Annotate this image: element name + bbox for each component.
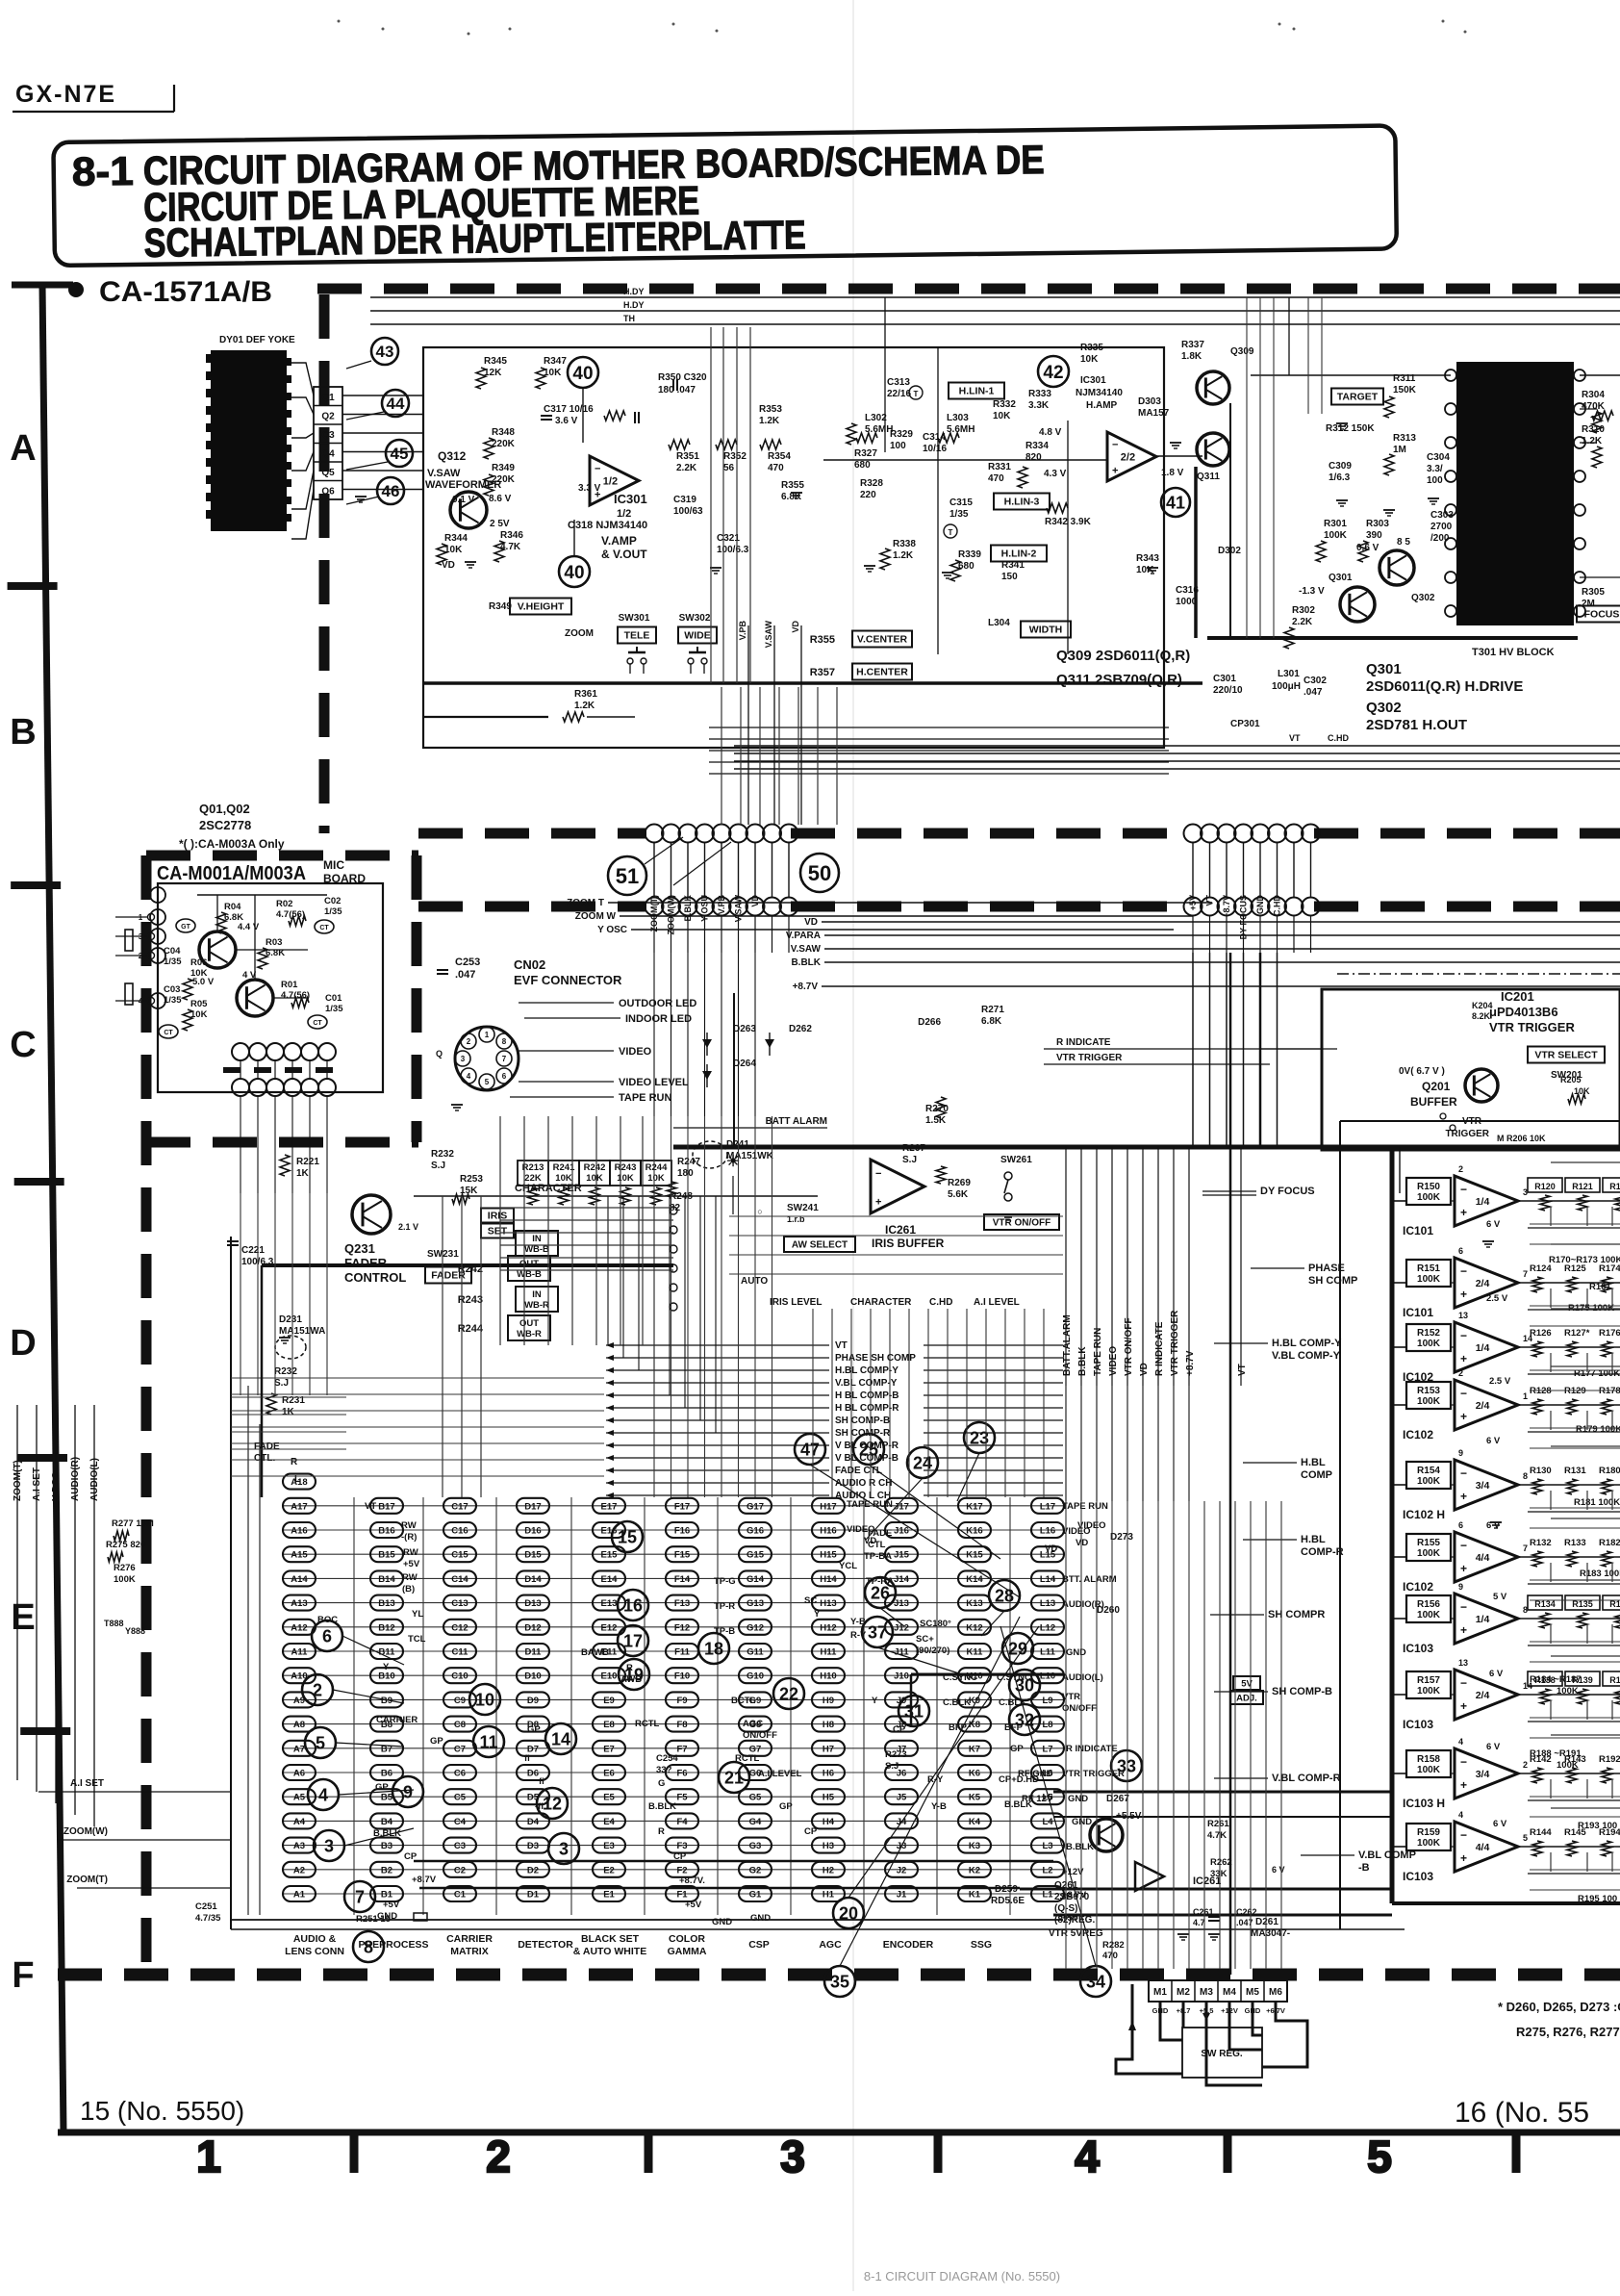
svg-text:6: 6 (502, 1072, 507, 1081)
svg-text:43: 43 (376, 343, 394, 361)
svg-text:2: 2 (1458, 1368, 1463, 1378)
svg-text:RD5.6E: RD5.6E (991, 1896, 1025, 1906)
svg-text:TAPE RUN: TAPE RUN (1062, 1501, 1108, 1512)
svg-text:9: 9 (1458, 1582, 1463, 1592)
svg-text:IC201: IC201 (1501, 989, 1534, 1004)
svg-text:470K: 470K (1582, 401, 1606, 412)
svg-text:& V.OUT: & V.OUT (601, 548, 647, 561)
svg-text:(82)REG.: (82)REG. (1054, 1915, 1095, 1926)
svg-text:2SD781 H.OUT: 2SD781 H.OUT (1366, 717, 1467, 733)
svg-text:ZOOM(T): ZOOM(T) (649, 895, 659, 932)
svg-text:+: + (1460, 1699, 1467, 1713)
svg-text:H.BL: H.BL (1301, 1457, 1326, 1468)
svg-text:Q01,Q02: Q01,Q02 (199, 802, 250, 816)
svg-text:Q201: Q201 (1422, 1080, 1451, 1093)
svg-text:GND: GND (1068, 1794, 1088, 1804)
svg-text:fi: fi (539, 1776, 544, 1787)
svg-text:R304: R304 (1582, 390, 1605, 400)
svg-text:K204: K204 (1472, 1001, 1493, 1010)
svg-text:−: − (1460, 1467, 1467, 1480)
svg-text:L16: L16 (1040, 1526, 1055, 1537)
svg-text:42: 42 (1043, 363, 1063, 383)
svg-text:470: 470 (1102, 1951, 1118, 1961)
svg-text:7: 7 (1523, 1269, 1528, 1279)
svg-text:R353: R353 (759, 404, 782, 415)
svg-text:R02: R02 (276, 899, 292, 909)
svg-text:4: 4 (318, 1785, 328, 1804)
svg-text:R193 100: R193 100 (1578, 1821, 1617, 1831)
svg-text:SW261: SW261 (1000, 1155, 1032, 1165)
svg-text:51: 51 (616, 864, 639, 888)
svg-text:C303: C303 (1430, 510, 1454, 521)
svg-text:R275, R276, R277 :CA-: R275, R276, R277 :CA- (1516, 2025, 1620, 2039)
svg-text:H8: H8 (823, 1720, 834, 1730)
svg-text:A3: A3 (293, 1841, 305, 1851)
svg-text:ON/OFF: ON/OFF (743, 1730, 777, 1741)
svg-text:2: 2 (1458, 1164, 1463, 1174)
svg-text:10K: 10K (617, 1173, 634, 1184)
svg-text:C309: C309 (1329, 461, 1352, 472)
svg-text:H9: H9 (823, 1696, 834, 1706)
svg-text:1/35: 1/35 (324, 906, 342, 917)
svg-text:SET: SET (488, 1226, 508, 1237)
svg-text:10K: 10K (555, 1173, 572, 1184)
svg-text:41: 41 (1166, 493, 1185, 512)
svg-text:5: 5 (1367, 2131, 1392, 2181)
svg-text:+: + (1460, 1623, 1467, 1637)
svg-text:A18: A18 (291, 1477, 307, 1488)
svg-text:LENS CONN: LENS CONN (285, 1946, 344, 1957)
svg-text:L303: L303 (947, 413, 969, 423)
svg-text:VTR 5VREG: VTR 5VREG (1049, 1928, 1103, 1939)
svg-text:VTR TRIGGER: VTR TRIGGER (1170, 1310, 1180, 1376)
svg-text:−: − (1460, 1329, 1467, 1342)
svg-text:G14: G14 (747, 1574, 765, 1585)
svg-text:D273: D273 (1110, 1532, 1133, 1543)
svg-text:VIDEO: VIDEO (847, 1524, 875, 1535)
svg-text:R140: R140 (1609, 1675, 1620, 1685)
svg-text:T301 HV BLOCK: T301 HV BLOCK (1472, 647, 1555, 658)
svg-text:ZOOM(W): ZOOM(W) (63, 1826, 108, 1837)
svg-text:GP: GP (527, 1724, 541, 1735)
svg-text:VTR ON/OFF: VTR ON/OFF (1124, 1317, 1134, 1376)
svg-text:2SB970: 2SB970 (1054, 1892, 1090, 1902)
svg-text:1/2: 1/2 (603, 476, 618, 488)
svg-text:100K: 100K (1417, 1765, 1441, 1775)
svg-text:680: 680 (854, 460, 871, 471)
svg-text:CARRIER: CARRIER (446, 1933, 493, 1945)
svg-text:V.PB: V.PB (717, 895, 726, 915)
svg-text:B.BLK: B.BLK (648, 1801, 676, 1812)
svg-text:B.BLK: B.BLK (683, 895, 693, 922)
svg-text:D262: D262 (789, 1024, 812, 1034)
svg-text:R144: R144 (1530, 1827, 1552, 1838)
svg-text:5.6K: 5.6K (948, 1189, 969, 1200)
svg-text:H.DY: H.DY (623, 287, 645, 296)
svg-text:47: 47 (800, 1440, 820, 1459)
svg-text:F11: F11 (674, 1647, 691, 1658)
svg-text:A.I SET: A.I SET (70, 1778, 104, 1789)
svg-text:2: 2 (1523, 1760, 1528, 1770)
svg-text:K15: K15 (966, 1550, 983, 1561)
svg-text:C13: C13 (451, 1598, 468, 1609)
svg-text:H3: H3 (823, 1841, 834, 1851)
svg-text:Q311: Q311 (1197, 472, 1220, 482)
svg-text:C301: C301 (1213, 674, 1236, 684)
svg-text:C8: C8 (454, 1720, 466, 1730)
svg-text:−: − (1460, 1387, 1467, 1400)
svg-text:R183 100K: R183 100K (1580, 1569, 1620, 1579)
svg-text:A15: A15 (291, 1550, 308, 1561)
svg-text:180: 180 (677, 1168, 694, 1179)
svg-text:IC301: IC301 (614, 492, 647, 506)
svg-text:+5.5V: +5.5V (1116, 1811, 1142, 1822)
svg-text:GP: GP (430, 1736, 443, 1747)
svg-text:L4: L4 (1042, 1817, 1053, 1827)
svg-text:V.SAW: V.SAW (764, 621, 773, 649)
svg-text:TARGET: TARGET (1337, 392, 1379, 403)
svg-text:μPD4013B6: μPD4013B6 (1489, 1005, 1558, 1019)
svg-text:Y OSC: Y OSC (597, 925, 627, 935)
svg-text:R192: R192 (1599, 1754, 1620, 1765)
svg-text:3: 3 (780, 2131, 805, 2181)
svg-text:M3: M3 (1200, 1987, 1213, 1998)
svg-text:CP: CP (804, 1826, 818, 1837)
svg-text:ZOOM(W): ZOOM(W) (667, 895, 676, 934)
svg-text:A14: A14 (291, 1574, 308, 1585)
svg-text:22: 22 (779, 1684, 798, 1703)
svg-text:SSG: SSG (971, 1939, 992, 1951)
svg-text:100K: 100K (1417, 1548, 1441, 1559)
svg-text:R: R (658, 1826, 665, 1837)
svg-text:ZOOM W: ZOOM W (575, 911, 617, 922)
svg-text:R INDICATE: R INDICATE (1056, 1037, 1111, 1048)
svg-text:G10: G10 (747, 1671, 764, 1682)
svg-text:1.2K: 1.2K (1582, 436, 1603, 446)
svg-text:33: 33 (1117, 1756, 1136, 1775)
svg-text:F: F (12, 1955, 34, 1996)
svg-text:2.5 V: 2.5 V (1486, 1293, 1508, 1304)
svg-text:44: 44 (387, 395, 405, 413)
svg-text:B3: B3 (381, 1841, 392, 1851)
svg-text:AUDIO &: AUDIO & (293, 1933, 337, 1945)
svg-text:Q309 2SD6011(Q,R): Q309 2SD6011(Q,R) (1056, 648, 1190, 664)
svg-text:M4: M4 (1223, 1987, 1236, 1998)
svg-text:+: + (1112, 465, 1118, 476)
svg-text:E17: E17 (601, 1501, 618, 1512)
svg-text:C319: C319 (673, 495, 696, 505)
svg-text:K2: K2 (969, 1865, 980, 1875)
svg-text:Y OSU: Y OSU (700, 895, 710, 922)
svg-text:100: 100 (1427, 475, 1443, 486)
svg-text:R161: R161 (1589, 1282, 1611, 1292)
svg-text:ADJ.: ADJ. (1236, 1694, 1257, 1704)
svg-text:(B): (B) (402, 1584, 415, 1594)
svg-text:A6: A6 (293, 1769, 305, 1779)
svg-text:B12: B12 (378, 1622, 394, 1633)
svg-text:C: C (10, 1025, 36, 1065)
svg-text:2/4: 2/4 (1476, 1690, 1490, 1701)
svg-text:45: 45 (391, 445, 409, 463)
svg-text:E3: E3 (603, 1841, 615, 1851)
svg-text:R157: R157 (1417, 1675, 1440, 1686)
svg-text:4: 4 (1458, 1810, 1463, 1820)
svg-text:2: 2 (486, 2131, 511, 2181)
svg-text:10K: 10K (586, 1173, 603, 1184)
svg-text:F14: F14 (674, 1574, 691, 1585)
svg-text:Q312: Q312 (438, 449, 467, 463)
svg-text:C11: C11 (452, 1647, 469, 1658)
svg-text:470: 470 (768, 463, 784, 473)
svg-text:10: 10 (475, 1690, 494, 1709)
svg-text:WB-R: WB-R (524, 1300, 549, 1311)
svg-text:Q301: Q301 (1366, 661, 1402, 677)
svg-text:T888: T888 (104, 1619, 124, 1628)
svg-text:M R206 10K: M R206 10K (1497, 1134, 1546, 1143)
svg-text:R151: R151 (1417, 1263, 1440, 1274)
svg-text:100K: 100K (1417, 1339, 1441, 1349)
svg-text:B6: B6 (381, 1769, 392, 1779)
svg-text:D16: D16 (524, 1526, 541, 1537)
svg-text:J1: J1 (897, 1890, 907, 1901)
svg-text:11: 11 (479, 1732, 497, 1751)
svg-text:L304: L304 (988, 618, 1010, 628)
svg-text:C302: C302 (1304, 676, 1327, 686)
svg-text:H12: H12 (820, 1622, 836, 1633)
svg-text:20: 20 (839, 1903, 858, 1923)
svg-text:C15: C15 (451, 1550, 468, 1561)
svg-text:VT: VT (835, 1340, 848, 1351)
svg-text:SW301: SW301 (619, 613, 650, 624)
svg-text:B: B (10, 712, 36, 753)
svg-text:TAPE RUN: TAPE RUN (1093, 1328, 1103, 1376)
svg-text:+: + (1460, 1562, 1467, 1575)
svg-text:4.7(56): 4.7(56) (276, 909, 305, 920)
svg-text:4.3 V: 4.3 V (1044, 469, 1067, 479)
svg-text:H14: H14 (820, 1574, 837, 1585)
svg-text:C313: C313 (887, 377, 910, 388)
svg-text:E10: E10 (601, 1671, 618, 1682)
svg-text:SCHALTPLAN DER HAUPTLEITERPLAT: SCHALTPLAN DER HAUPTLEITERPLATTE (143, 212, 806, 266)
svg-text:Q6: Q6 (321, 487, 335, 497)
svg-text:WB-B: WB-B (517, 1269, 542, 1280)
svg-text:MA157: MA157 (1138, 408, 1170, 419)
svg-text:C2: C2 (454, 1865, 466, 1875)
svg-text:RF GND: RF GND (1018, 1769, 1053, 1779)
svg-text:−: − (1460, 1183, 1467, 1196)
svg-text:150: 150 (1001, 572, 1018, 582)
svg-text:R181 100K: R181 100K (1574, 1497, 1620, 1508)
svg-text:fi: fi (524, 1753, 530, 1764)
svg-text:CT: CT (164, 1030, 173, 1036)
svg-text:R349: R349 (489, 601, 512, 612)
svg-text:ON/OFF: ON/OFF (1062, 1703, 1097, 1714)
svg-text:R327: R327 (854, 448, 877, 459)
svg-text:Q2: Q2 (321, 412, 335, 422)
svg-text:R277 10M: R277 10M (112, 1518, 154, 1529)
svg-text:L12: L12 (1040, 1622, 1055, 1633)
svg-text:R213: R213 (522, 1162, 544, 1173)
svg-text:C261: C261 (1193, 1907, 1214, 1917)
svg-text:R06: R06 (190, 957, 207, 968)
svg-text:100K: 100K (1417, 1192, 1441, 1203)
svg-text:E2: E2 (603, 1865, 615, 1875)
svg-text:H5: H5 (823, 1793, 835, 1803)
svg-text:R303: R303 (1366, 519, 1389, 529)
svg-text:INDOOR LED: INDOOR LED (625, 1013, 692, 1025)
svg-text:D303: D303 (1138, 396, 1161, 407)
svg-text:CA-M001A/M003A: CA-M001A/M003A (157, 863, 306, 884)
svg-text:−: − (1460, 1828, 1467, 1842)
svg-text:CP: CP (893, 1724, 906, 1735)
svg-text:2: 2 (313, 1680, 322, 1699)
svg-text:RW: RW (402, 1572, 418, 1583)
svg-text:R243: R243 (615, 1162, 637, 1173)
svg-text:13: 13 (1458, 1311, 1468, 1320)
svg-text:GND: GND (1072, 1817, 1092, 1827)
svg-text:R338: R338 (893, 539, 916, 549)
svg-text:C01: C01 (325, 993, 342, 1004)
svg-text:A2: A2 (293, 1865, 305, 1875)
svg-text:M5: M5 (1246, 1987, 1259, 1998)
svg-text:3.3 V: 3.3 V (578, 483, 601, 494)
svg-text:100: 100 (890, 441, 906, 451)
svg-text:E5: E5 (603, 1793, 615, 1803)
svg-text:Y-B: Y-B (931, 1801, 947, 1812)
svg-text:8-1: 8-1 (71, 148, 134, 194)
svg-text:D259: D259 (995, 1884, 1018, 1895)
svg-text:E6: E6 (603, 1769, 615, 1779)
svg-text:GND: GND (1066, 1647, 1086, 1658)
svg-text:GAMMA: GAMMA (668, 1946, 707, 1957)
svg-text:5.0 V: 5.0 V (192, 977, 215, 987)
svg-text:G16: G16 (747, 1526, 764, 1537)
svg-text:E: E (11, 1597, 35, 1638)
svg-text:100K: 100K (114, 1574, 136, 1585)
svg-text:V.PARA: V.PARA (786, 931, 821, 941)
svg-text:21: 21 (724, 1768, 744, 1787)
svg-text:Q301: Q301 (1329, 573, 1353, 583)
svg-text:R349: R349 (492, 463, 515, 473)
svg-text:H.LIN-3: H.LIN-3 (1004, 497, 1040, 508)
svg-text:G17: G17 (747, 1501, 764, 1512)
svg-text:D11: D11 (525, 1647, 543, 1658)
svg-text:G4: G4 (749, 1817, 762, 1827)
svg-text:C4: C4 (454, 1817, 467, 1827)
svg-text:E4: E4 (603, 1817, 615, 1827)
svg-text:M6: M6 (1269, 1987, 1282, 1998)
svg-text:470: 470 (988, 473, 1004, 484)
svg-text:K5: K5 (969, 1793, 981, 1803)
svg-text:13: 13 (1458, 1658, 1468, 1668)
svg-text:RW: RW (401, 1520, 417, 1531)
svg-text:R333: R333 (1028, 389, 1051, 399)
svg-text:PHASE SH COMP: PHASE SH COMP (835, 1353, 916, 1364)
svg-text:G13: G13 (747, 1598, 764, 1609)
svg-text:B.BLK: B.BLK (1066, 1842, 1094, 1852)
svg-text:V.BL COMP-Y: V.BL COMP-Y (835, 1378, 898, 1389)
svg-text:+5V: +5V (383, 1900, 400, 1910)
svg-text:CONTROL: CONTROL (344, 1270, 406, 1285)
svg-text:H6: H6 (823, 1769, 834, 1779)
svg-text:R150: R150 (1417, 1182, 1440, 1192)
svg-text:R334: R334 (1025, 441, 1049, 451)
svg-text:R328: R328 (860, 478, 883, 489)
svg-text:R126: R126 (1530, 1328, 1552, 1339)
svg-text:S.J: S.J (902, 1155, 917, 1165)
svg-text:SH COMP: SH COMP (1308, 1275, 1357, 1287)
svg-text:IC102: IC102 (1403, 1428, 1433, 1441)
svg-text:R261: R261 (1207, 1819, 1229, 1829)
svg-text:D4: D4 (527, 1817, 540, 1827)
svg-text:R04: R04 (224, 902, 241, 912)
svg-text:E13: E13 (601, 1598, 618, 1609)
svg-text:VD: VD (1139, 1363, 1150, 1376)
svg-text:1: 1 (485, 1031, 490, 1039)
svg-text:IC101: IC101 (1403, 1306, 1433, 1319)
svg-text:2 5V: 2 5V (490, 519, 510, 529)
svg-text:A7: A7 (293, 1744, 305, 1754)
svg-text:390: 390 (1366, 530, 1382, 541)
svg-text:VIDEO LEVEL: VIDEO LEVEL (619, 1077, 689, 1088)
svg-text:1/35: 1/35 (949, 509, 969, 520)
svg-text:8-1 CIRCUIT DIAGRAM (No. 555: 8-1 CIRCUIT DIAGRAM (No. 5550) (864, 2269, 1060, 2283)
svg-text:VD: VD (1076, 1538, 1088, 1548)
svg-text:TP-G: TP-G (714, 1576, 736, 1587)
svg-text:-1.3 V: -1.3 V (1299, 586, 1325, 597)
svg-text:4.7: 4.7 (1193, 1918, 1205, 1927)
svg-text:R127*: R127* (1564, 1328, 1590, 1339)
svg-text:6 V: 6 V (1489, 1669, 1504, 1679)
svg-text:B.BLK: B.BLK (1077, 1346, 1088, 1376)
svg-text:R310: R310 (1582, 424, 1605, 435)
svg-text:H4: H4 (823, 1817, 835, 1827)
svg-text:7: 7 (502, 1055, 507, 1063)
svg-text:H.CENTER: H.CENTER (856, 667, 908, 678)
svg-text:C253: C253 (455, 957, 480, 968)
svg-text:K13: K13 (966, 1598, 982, 1609)
svg-text:16: 16 (623, 1595, 643, 1615)
svg-text:5: 5 (485, 1078, 490, 1086)
svg-text:WB-B: WB-B (524, 1244, 549, 1255)
svg-text:C5: C5 (454, 1793, 467, 1803)
svg-text:OUTDOOR LED: OUTDOOR LED (619, 998, 696, 1009)
svg-text:R355: R355 (810, 634, 835, 646)
svg-text:L2: L2 (1042, 1865, 1052, 1875)
svg-text:MIC: MIC (323, 858, 344, 872)
svg-text:A11: A11 (291, 1647, 309, 1658)
svg-text:C254: C254 (656, 1753, 678, 1764)
svg-text:+: + (1460, 1851, 1467, 1865)
svg-text:L17: L17 (1040, 1501, 1055, 1512)
svg-text:A.I LEVEL: A.I LEVEL (974, 1297, 1020, 1308)
svg-text:B1: B1 (381, 1890, 393, 1901)
svg-text:R354: R354 (768, 451, 791, 462)
svg-text:R188 ~R191: R188 ~R191 (1530, 1748, 1582, 1759)
svg-text:−: − (1460, 1755, 1467, 1769)
svg-text:H13: H13 (820, 1598, 836, 1609)
svg-text:K4: K4 (969, 1817, 981, 1827)
svg-text:A16: A16 (291, 1526, 307, 1537)
svg-text:COLOR: COLOR (669, 1933, 705, 1945)
svg-text:IC103: IC103 (1403, 1642, 1433, 1655)
svg-text:NJM34140: NJM34140 (1076, 388, 1123, 398)
svg-text:.047: .047 (455, 969, 475, 981)
svg-text:C.HD: C.HD (1328, 733, 1349, 743)
svg-text:YL: YL (412, 1609, 423, 1620)
svg-text:4.8 V: 4.8 V (1039, 427, 1062, 438)
svg-text:TELE: TELE (624, 630, 650, 642)
